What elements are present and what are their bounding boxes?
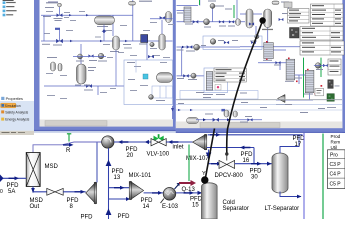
svg-text:PFD: PFD	[118, 214, 131, 219]
svg-text:E-103: E-103	[162, 204, 179, 210]
svg-text:PFD: PFD	[81, 215, 94, 220]
svg-text:14: 14	[143, 204, 150, 210]
svg-text:C4 P: C4 P	[330, 172, 342, 178]
svg-text:Simulation: Simulation	[5, 104, 21, 108]
svg-text:Util: Util	[331, 145, 338, 150]
svg-text:20: 20	[127, 153, 134, 159]
svg-text:C3 P: C3 P	[330, 162, 342, 168]
svg-text:R: R	[66, 148, 71, 154]
svg-text:30: 30	[251, 175, 258, 181]
svg-text:Out: Out	[30, 204, 40, 210]
svg-text:Safety Analysis: Safety Analysis	[5, 110, 28, 114]
svg-text:VLV-100: VLV-100	[147, 152, 170, 158]
svg-text:MSD: MSD	[45, 164, 59, 170]
svg-text:Properties: Properties	[6, 97, 23, 101]
svg-text:DPCV-800: DPCV-800	[215, 173, 244, 179]
svg-text:13: 13	[114, 175, 121, 181]
svg-text:PFD: PFD	[250, 168, 263, 174]
svg-text:16: 16	[243, 158, 250, 164]
svg-text:Pro: Pro	[330, 152, 338, 158]
svg-text:15: 15	[192, 203, 199, 209]
svg-text:PFD: PFD	[141, 198, 154, 204]
svg-text:C5 P: C5 P	[330, 181, 342, 187]
svg-text:Prod: Prod	[331, 134, 341, 139]
svg-text:0: 0	[0, 189, 3, 195]
svg-text:5A: 5A	[8, 189, 15, 195]
svg-text:Separator: Separator	[223, 206, 249, 212]
svg-text:PFD: PFD	[190, 196, 203, 202]
svg-text:17: 17	[295, 142, 302, 148]
svg-text:PFD: PFD	[67, 198, 80, 204]
svg-text:PFD: PFD	[112, 169, 125, 175]
svg-text:MIX-101: MIX-101	[129, 173, 152, 179]
svg-text:PFD: PFD	[293, 136, 306, 142]
svg-text:PFD: PFD	[126, 147, 139, 153]
svg-text:MSD: MSD	[30, 198, 44, 204]
svg-text:Y: Y	[202, 171, 206, 177]
svg-text:Cold: Cold	[223, 200, 235, 206]
svg-text:inlet: inlet	[173, 145, 184, 151]
svg-text:Rem: Rem	[331, 139, 341, 144]
svg-text:LT-Separator: LT-Separator	[265, 206, 300, 212]
svg-text:PFD: PFD	[7, 183, 20, 189]
svg-text:Energy Analysis: Energy Analysis	[5, 118, 29, 122]
